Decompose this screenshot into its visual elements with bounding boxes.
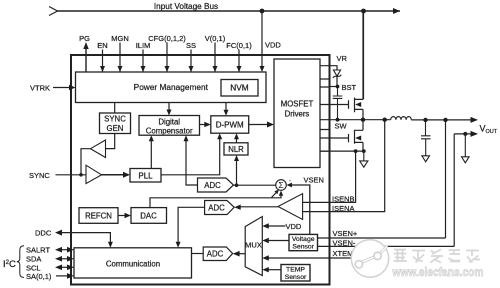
svg-text:ADC: ADC [208,203,225,212]
mux MUX trapezoid [245,217,262,276]
wire MUX out to ADC3 arrow [239,253,245,255]
node load return junction [463,132,467,136]
svg-text:-: - [289,178,291,185]
svg-text:PG: PG [79,34,90,43]
pin ISENB wire [303,151,356,202]
watermark logo circle [351,240,388,277]
pin SALRT wire bidirectional [61,249,68,251]
svg-text:ADC: ADC [204,181,221,190]
svg-text:ISENB: ISENB [332,195,355,204]
buffer sync in triangle [86,165,102,183]
pin SCL wire bidirectional [61,266,68,268]
svg-text:CFG(0,1,2): CFG(0,1,2) [148,34,186,43]
block TEMP Sensor [281,265,310,282]
svg-text:Σ: Σ [278,180,283,190]
wire REFCN to DAC arrow [118,215,125,217]
svg-text:Drivers: Drivers [285,110,310,119]
chip outer boundary U1 [71,55,330,285]
adc ADC1 body [198,178,234,192]
block Voltage Sensor [289,234,318,250]
capacitor output [421,120,431,156]
svg-text:MOSFET: MOSFET [281,100,314,109]
ground under FET [360,151,368,167]
switch arrow at sigma [272,192,278,198]
svg-text:VSEN+: VSEN+ [333,229,358,238]
node BST junction [336,85,340,89]
svg-text:www.elecfans.com: www.elecfans.com [392,265,484,279]
block Digital Compensator [139,116,200,136]
adc ADC2 body [205,201,235,215]
ground under load [462,134,470,163]
wire PM to D-PWM [225,103,227,111]
pin V(0,1) [214,43,216,73]
wire VSEN+ sense drop [445,120,447,238]
pin PG line with up arrow [85,48,87,72]
ground under output cap [422,156,430,162]
inductor L1 [391,117,412,120]
svg-text:VR: VR [337,54,348,63]
svg-text:VDD: VDD [286,222,302,231]
watermark chinese text [394,250,481,263]
transistor Q1 high-side MOSFET [329,11,363,120]
pin CFG(0,1,2) [166,43,168,73]
wire VSEN into sigma with arrow [292,185,310,234]
svg-text:I2C: I2C [3,259,16,270]
pin FC(0,1) [238,50,240,73]
svg-text:SYNC: SYNC [104,115,126,124]
pin ILIM [142,50,144,73]
svg-text:Input Voltage Bus: Input Voltage Bus [154,2,218,11]
pin SYNC wire [56,174,87,176]
pin DDC wire with arrow to Communication [61,233,110,243]
block NVM [221,80,258,97]
svg-text:Digital: Digital [158,117,180,126]
svg-text:VSEN: VSEN [304,176,324,185]
pin VSEN- wire [318,245,455,247]
svg-text:EN: EN [97,41,107,50]
svg-text:REFCN: REFCN [85,212,112,221]
wire sync out buffer to SYNC node [81,149,91,175]
svg-text:SW: SW [335,122,348,131]
wire ADC2 out to Communication [178,207,205,242]
pin VSEN+ wire [318,237,446,239]
block REFCN [79,208,118,224]
pin VDD arrowhead into PM [260,66,265,72]
svg-text:GEN: GEN [107,124,124,133]
wire SW rail [329,119,391,121]
node bus open arrow left end [49,7,58,16]
wire VSEN- sense drop [453,134,455,247]
wire TEMP Sensor to MUX arrow [268,269,281,271]
wire error line to NLR arrow [236,161,238,185]
svg-text:SDA: SDA [26,255,41,264]
wire SYNC GEN to sync out buffer [106,134,115,149]
pin VR wire [329,66,337,70]
wire output rail [411,119,473,121]
node SW junctions [336,118,340,122]
wire input voltage bus [57,10,401,12]
svg-text:SYNC: SYNC [29,171,50,180]
svg-text:FC(0,1): FC(0,1) [226,41,252,50]
svg-text:BST: BST [342,83,357,92]
pin MGN [119,43,121,73]
wire PM to SYNC GEN [114,103,116,114]
block D-PWM [211,116,249,133]
pin ISENA wire [303,120,385,212]
svg-text:PLL: PLL [138,171,153,180]
svg-text:DAC: DAC [140,212,157,221]
pin stubs drivers to edge [320,66,329,151]
node SYNC junction [79,173,83,177]
node output junctions [423,118,427,122]
svg-text:VTRK: VTRK [30,84,50,93]
block Power Management [76,72,267,103]
svg-text:TEMP: TEMP [286,267,305,274]
svg-text:ISENA: ISENA [332,204,355,213]
svg-text:D-PWM: D-PWM [216,121,244,130]
buffer sync out triangle [91,140,106,158]
svg-text:NVM: NVM [230,83,249,93]
pin SDA wire bidirectional [61,258,68,260]
block MOSFET Drivers [274,59,320,168]
svg-text:NLR: NLR [228,145,244,154]
wire NLR to D-PWM arrow [236,139,238,143]
pin SA(0,1) wire input [56,275,68,277]
svg-text:Sensor: Sensor [292,244,314,251]
capacitor bootstrap [333,87,343,120]
svg-text:SALRT: SALRT [26,246,50,255]
amp current sense triangle [278,194,303,220]
svg-text:Sensor: Sensor [285,274,307,281]
wire Voltage Sensor to MUX arrow [268,240,289,242]
wire VDD input to MUX arrow [268,225,286,227]
svg-text:VSEN-: VSEN- [333,238,356,247]
block SYNC GEN [100,113,131,134]
pin VTRK wire and arrow [53,87,70,89]
wire FET source ground line [320,150,364,152]
wire DC to D-PWM arrow [200,124,206,126]
svg-text:Compensator: Compensator [146,126,193,135]
summer sigma circle [276,180,287,191]
wire Communication to ADC3 [192,253,204,255]
svg-text:V(0,1): V(0,1) [205,34,226,43]
wire PM to Digital Compensator [168,103,170,111]
wire VIN drop from bus to high-side FET drain [363,11,365,99]
node bus arrowhead right end [393,8,400,14]
block DAC [131,208,167,224]
node source junctions [354,149,358,153]
svg-text:SA(0,1): SA(0,1) [26,272,52,281]
adc ADC3 body [203,247,232,261]
svg-text:VDD: VDD [265,41,281,50]
svg-text:Voltage: Voltage [292,236,315,243]
svg-text:Power Management: Power Management [134,82,209,92]
wire load return arrow [454,133,473,135]
svg-text:Communication: Communication [106,259,160,268]
svg-text:DDC: DDC [35,229,52,238]
wire ADC1 out to Digital Compensator [186,141,198,185]
wire amp out to ADC2 arrow [240,206,278,208]
svg-text:SS: SS [186,41,196,50]
wire PLL to Digital Compensator [150,141,152,169]
brace I2C group [17,246,24,278]
node bus junction VIN to FET [361,9,366,14]
node bus junction VDD [260,9,265,14]
block NLR [224,143,248,155]
diode zener VR [333,70,340,76]
wire PLL out to D-PWM [161,139,220,175]
wire sigma to ADC1 [234,184,276,186]
pin EN [102,50,104,73]
wire sync buffer to PLL with arrow [102,174,125,176]
transistor Q2 low-side MOSFET [329,120,363,151]
pin BST wire [329,86,338,88]
block PLL [130,169,161,183]
block Communication [74,248,192,278]
node error line junction [235,183,239,187]
wire DAC to sigma plus arrow [150,196,281,208]
svg-text:ADC: ADC [207,250,224,259]
pin SS [190,50,192,73]
wire VDD from bus to Power Management [261,11,263,67]
pin XTEMP wire to MUX arrow [268,257,352,259]
svg-text:MUX: MUX [245,241,262,250]
wire D-PWM to MOSFET drivers arrow [249,124,268,126]
svg-text:MGN: MGN [111,34,129,43]
